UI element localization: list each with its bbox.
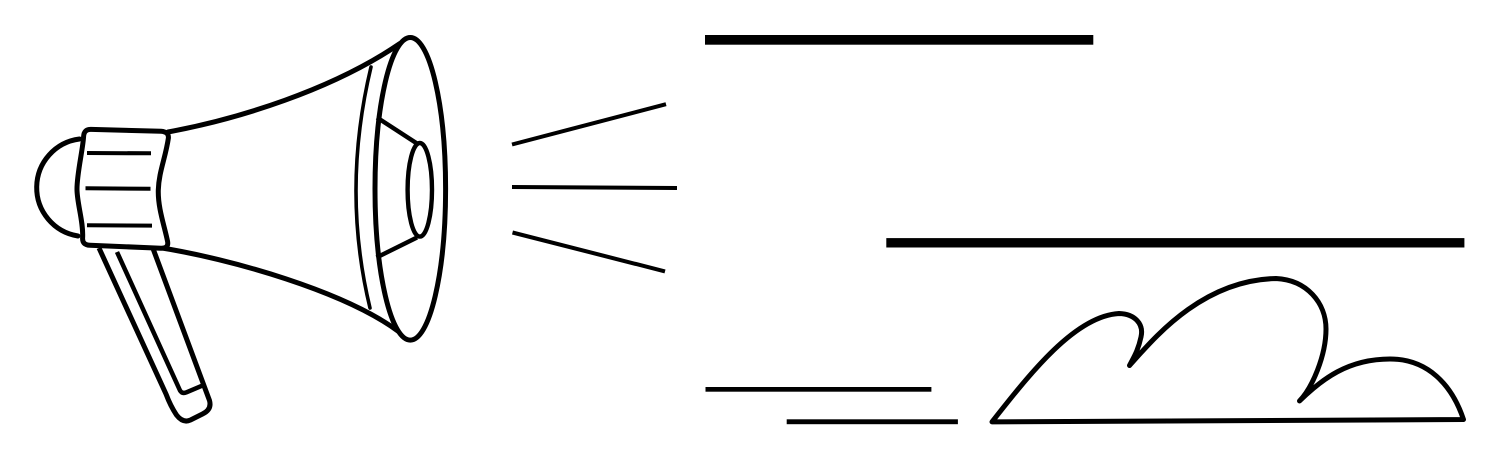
barrel rib 2: [86, 186, 151, 191]
barrel rib 3: [87, 223, 152, 227]
megaphone barrel: [77, 129, 168, 248]
megaphone handle inner line: [117, 252, 203, 393]
thin text line upper: [706, 387, 932, 392]
sound line bottom: [513, 233, 666, 272]
inner small ellipse: [408, 143, 432, 237]
cloud: [992, 279, 1464, 422]
top heading bar: [705, 35, 1093, 45]
sound line middle: [512, 187, 677, 188]
megaphone horn top outline: [168, 44, 400, 133]
megaphone bell mouth ellipse: [375, 38, 446, 341]
inner cone bottom line: [377, 238, 418, 258]
megaphone handle outline: [99, 248, 210, 421]
megaphone horn bottom outline: [156, 247, 398, 331]
inner cone top line: [377, 118, 417, 144]
megaphone rear cap: [37, 139, 80, 236]
middle heading bar: [886, 238, 1464, 247]
barrel rib 1: [87, 151, 151, 155]
thin text line lower: [787, 419, 958, 424]
bell inner arc: [356, 67, 371, 308]
sound line top: [512, 104, 666, 144]
